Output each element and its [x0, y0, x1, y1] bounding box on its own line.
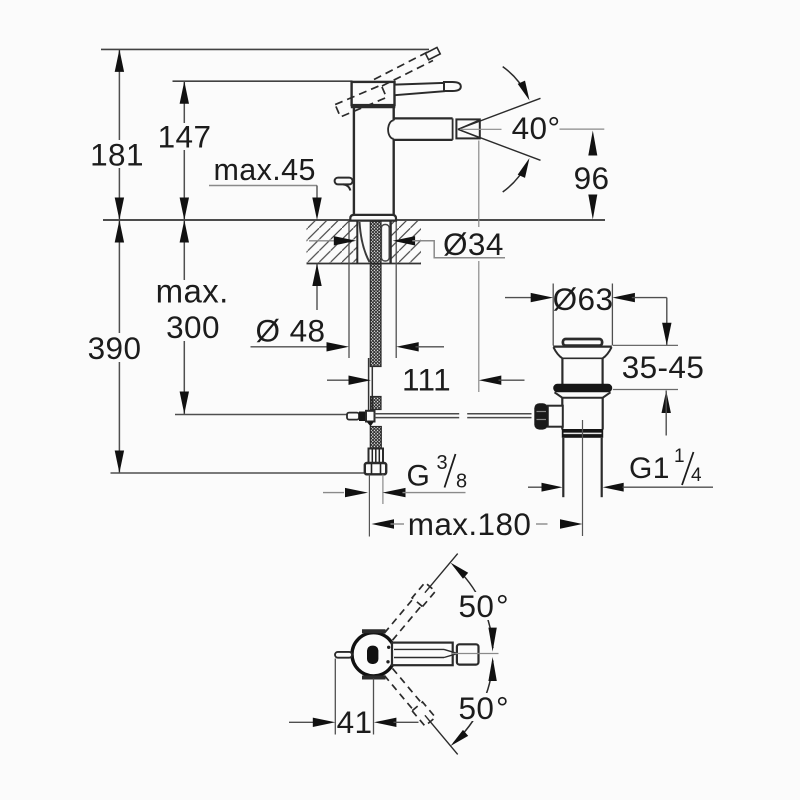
- faucet pop-up rod knob: [335, 178, 353, 185]
- svg-text:Ø63: Ø63: [553, 281, 614, 317]
- valve body right edge: [602, 398, 604, 430]
- dimension 41 right extension line: [373, 679, 375, 735]
- topview dashed handle upper grip: [412, 583, 435, 607]
- wire swivel fan upper line: [458, 98, 541, 129]
- wire 35-45 bottom reference: [613, 389, 678, 391]
- dimension G38 right leader: [403, 492, 466, 494]
- deck section hatching right: [392, 221, 422, 263]
- valve o-ring: [553, 384, 612, 393]
- label 50deg lower background: [456, 693, 502, 721]
- dimension Ø63 right leader: [632, 297, 667, 299]
- pop-up linkage tee box: [366, 411, 375, 422]
- wire 147 reference line (body top datum): [173, 80, 353, 82]
- dimension G38 right extension line: [382, 475, 384, 505]
- faucet handle dashed tilted outline: [335, 85, 386, 117]
- dimension 111 right arrow: [479, 376, 502, 385]
- topview dot 2: [386, 660, 389, 663]
- topview spout inner line 1: [394, 648, 444, 650]
- wire swivel fan center line: [460, 128, 502, 130]
- dimension 41 right leader: [394, 721, 419, 723]
- pop-up rod segment 1 bottom: [375, 417, 460, 419]
- label G114 slash: [682, 452, 694, 485]
- dimension Ø34 leader polyline: [412, 241, 505, 258]
- svg-text:147: 147: [158, 119, 212, 155]
- dimension 40deg upper arc: [503, 67, 528, 96]
- faucet spout top edge: [395, 117, 453, 119]
- svg-text:390: 390: [88, 330, 142, 366]
- topview spout taper 1: [444, 649, 457, 653]
- dimension max180 right arrow: [560, 519, 583, 528]
- label 181 background: [92, 140, 144, 168]
- dimension Ø63 right extension line: [611, 284, 613, 346]
- label G38 slash: [445, 454, 456, 488]
- topview spout tube: [392, 643, 453, 666]
- dimension Ø48 right extension line: [395, 221, 397, 358]
- valve body left edge: [561, 398, 563, 430]
- svg-text:max.180: max.180: [408, 506, 532, 542]
- topview dashed handle upper line 1: [393, 605, 423, 640]
- svg-text:G1: G1: [629, 452, 670, 485]
- dimension 111 extension line (aerator) lower: [478, 261, 480, 392]
- dimension G114 left leader: [528, 486, 543, 488]
- valve knurled knob: [534, 403, 548, 429]
- wire swivel fan lower line: [458, 129, 541, 160]
- hose hex nut: [365, 463, 386, 474]
- dimension 41 left extension line: [334, 659, 336, 735]
- dimension max180 right leader: [536, 523, 548, 525]
- dimension 181 bottom arrow: [115, 198, 124, 221]
- faucet aerator cross line 2: [458, 129, 480, 138]
- dimension 40deg lower arc arrow: [518, 158, 530, 178]
- faucet cap thick bottom edge: [351, 105, 396, 109]
- valve tailpipe right edge: [601, 438, 603, 497]
- label 390 background: [89, 333, 145, 362]
- topview dashed handle lower line 2: [393, 668, 423, 703]
- label 147 background: [157, 123, 212, 150]
- hose ribbed connector rib 2: [375, 449, 377, 463]
- valve collar slit: [564, 432, 602, 434]
- svg-text:3: 3: [437, 452, 449, 474]
- valve centerline: [582, 420, 584, 536]
- pop-up rod segment 1 top: [375, 413, 460, 415]
- faucet lever rod: [395, 83, 445, 95]
- dimension Ø48 left extension line: [348, 221, 350, 358]
- faucet hose braid mid: [371, 397, 381, 410]
- pop-up linkage black block: [359, 412, 366, 422]
- node deck hole left edge: [356, 221, 358, 264]
- valve knob knurl slit 1: [537, 411, 547, 413]
- dimension Ø34 left arrow: [334, 236, 357, 245]
- faucet escutcheon flange: [350, 215, 396, 221]
- valve neck left edge: [561, 358, 563, 384]
- pop-up linkage lower tip: [367, 422, 375, 427]
- svg-text:G: G: [407, 460, 431, 493]
- dimension 50deg lower arc start arrow: [451, 730, 469, 746]
- valve tailpipe left edge: [562, 438, 564, 497]
- dimension Ø48 left arrow: [327, 342, 350, 351]
- dimension 41 left arrow: [313, 718, 336, 727]
- wire deck underside line: [307, 263, 422, 265]
- svg-text:max.: max.: [156, 272, 229, 309]
- faucet body right edge lower: [393, 139, 395, 215]
- label max. background: [155, 280, 231, 341]
- hose ribbed connector: [369, 449, 384, 464]
- dimension 40deg lower arc: [503, 163, 528, 192]
- wire pop-up rod reference line: [175, 414, 349, 416]
- faucet spout end edge: [452, 118, 454, 139]
- svg-text:300: 300: [166, 309, 220, 345]
- topview circle top flat: [362, 629, 386, 633]
- dimension 50deg upper arc start arrow: [451, 563, 469, 579]
- valve lip below o-ring: [555, 392, 611, 397]
- svg-text:96: 96: [574, 160, 610, 196]
- dimension G114 left arrow: [542, 483, 563, 492]
- hose ribbed connector rib 1: [371, 449, 373, 463]
- dimension 390 bottom arrow: [115, 451, 124, 474]
- dimension G38 right arrow: [383, 488, 406, 497]
- hose hex nut facet 1: [371, 464, 373, 474]
- svg-text:8: 8: [456, 471, 468, 493]
- dimension Ø48 right arrow: [396, 342, 419, 351]
- dimension G114 right arrow: [603, 483, 624, 492]
- dimension 50deg lower reference line: [425, 715, 458, 754]
- topview dashed handle upper line 2: [384, 598, 414, 633]
- node deck hole right edge: [389, 221, 391, 264]
- faucet body right edge upper: [393, 108, 395, 121]
- svg-text:°: °: [496, 690, 509, 726]
- dimension Ø63 left leader: [505, 297, 533, 299]
- dimension Ø63 left arrow: [531, 293, 554, 302]
- dimension 41 left leader: [289, 721, 316, 723]
- dimension G38 left leader: [323, 492, 344, 494]
- dimension 35-45 lower line: [665, 391, 667, 436]
- dimension Ø34 left leader: [309, 240, 335, 242]
- dimension 111 left leader: [327, 379, 352, 381]
- faucet rod guide tube curve: [360, 222, 370, 262]
- dimension max.300 bottom arrow: [180, 392, 189, 415]
- pop-up rod segment 2 bottom: [467, 417, 531, 419]
- dimension 111 right leader: [499, 379, 525, 381]
- dimension max.45 lower line: [316, 264, 318, 311]
- topview dot 1: [387, 646, 390, 649]
- topview dashed handle lower grip: [412, 702, 435, 726]
- valve flange top edge: [553, 346, 612, 348]
- faucet lever dashed raised line 2: [382, 61, 433, 87]
- dimension 50deg lower arc end arrow: [488, 657, 496, 681]
- pop-up linkage end cylinder: [347, 413, 359, 420]
- faucet shank slot: [381, 225, 389, 262]
- svg-text:°: °: [548, 110, 561, 146]
- faucet lever grip: [444, 82, 461, 91]
- valve knob knurl slit 2: [537, 419, 547, 421]
- topview left rod: [335, 652, 352, 658]
- topview dashed handle lower line 1: [384, 675, 414, 710]
- valve collar band: [562, 429, 603, 438]
- faucet aerator cross line 1: [458, 120, 480, 130]
- svg-text:Ø 48: Ø 48: [256, 313, 326, 349]
- dimension 147 top arrow: [180, 81, 189, 104]
- topview spout inner line 2: [394, 657, 444, 659]
- dimension 96 up arrow: [588, 131, 597, 156]
- dimension Ø34 right arrow: [393, 236, 416, 245]
- dimension max.45 drop line: [316, 186, 318, 203]
- dimension 35-45 up arrow: [662, 391, 671, 414]
- topview slot: [367, 646, 378, 664]
- svg-text:35-45: 35-45: [622, 349, 705, 385]
- topview spout taper 2: [444, 654, 457, 658]
- dimension 50deg upper reference line: [425, 554, 458, 593]
- valve flange right curve: [603, 347, 612, 358]
- dimension 50deg upper arc: [454, 566, 493, 649]
- svg-text:°: °: [496, 588, 509, 624]
- wire top reference line (lever top, 181 datum): [101, 48, 429, 50]
- wire 390 bottom reference line (hose end): [111, 472, 366, 474]
- topview body circle: [352, 633, 395, 676]
- dimension 111 left arrow: [349, 376, 372, 385]
- faucet lever dashed raised line 1: [374, 52, 428, 80]
- faucet hose braid lower: [370, 427, 381, 449]
- topview circle bottom flat: [362, 676, 386, 680]
- dimension max.45 up arrow: [312, 264, 321, 287]
- faucet handle base cap: [352, 82, 395, 105]
- topview center line: [452, 653, 499, 655]
- faucet body left edge: [353, 108, 355, 216]
- dimension 147 bottom arrow: [180, 198, 189, 221]
- dimension Ø63 right arrow: [612, 293, 635, 302]
- faucet spout bottom edge: [395, 139, 453, 141]
- svg-text:181: 181: [90, 137, 144, 173]
- dimension max180 left leader: [391, 523, 405, 525]
- valve dome cap: [563, 339, 602, 346]
- pop-up rod segment 2 top: [467, 413, 531, 415]
- dimension 390 top arrow: [115, 220, 124, 243]
- dimension 35-45 down arrow: [662, 323, 671, 346]
- valve side port: [548, 406, 563, 427]
- svg-text:max.45: max.45: [213, 153, 315, 187]
- dimension max180 left arrow: [372, 519, 395, 528]
- faucet aerator box: [456, 119, 479, 138]
- hose ribbed connector rib 3: [378, 449, 380, 463]
- dimension G114 right leader: [623, 486, 714, 488]
- dimension 41 right arrow: [374, 718, 397, 727]
- dimension 147 vertical line: [183, 81, 185, 220]
- valve neck right edge: [601, 358, 603, 384]
- dimension max.300 top arrow: [180, 220, 189, 243]
- svg-text:40: 40: [512, 110, 548, 146]
- wire mounting deck surface line: [103, 219, 605, 221]
- faucet lever dashed raised tip: [425, 47, 440, 59]
- dimension max.300 vertical line: [183, 220, 185, 414]
- label 50deg upper background: [456, 592, 502, 620]
- dimension 50deg lower arc: [454, 661, 493, 744]
- topview aerator: [457, 644, 479, 664]
- deck section hatching left: [307, 221, 357, 263]
- dimension G38 long extension line: [368, 475, 370, 537]
- dimension 35-45 upper line: [666, 298, 668, 346]
- wire 35-45 top reference: [613, 344, 678, 346]
- dimension Ø63 left extension line: [552, 284, 554, 346]
- wire 40deg leader line: [560, 128, 605, 130]
- faucet hose thin tube left: [368, 358, 370, 412]
- dimension G38 left arrow: [345, 488, 368, 497]
- dimension 96 down arrow: [588, 195, 597, 220]
- valve flange left curve: [553, 347, 562, 358]
- svg-text:50: 50: [459, 690, 495, 726]
- dimension 181 top arrow: [115, 49, 124, 72]
- faucet hose thin tube right: [371, 367, 373, 412]
- dimension Ø48 right leader: [416, 346, 445, 348]
- dimension 111 extension line (aerator) upper: [478, 141, 480, 228]
- dimension 390 vertical line: [118, 220, 120, 473]
- dimension 40deg upper arc arrow: [518, 81, 530, 101]
- dimension max.45 underline: [209, 185, 317, 187]
- dimension 181 vertical line: [118, 49, 120, 220]
- dimension max.45 down arrow: [312, 198, 321, 221]
- svg-text:Ø34: Ø34: [443, 226, 504, 262]
- svg-text:41: 41: [337, 704, 373, 740]
- hose hex nut facet 2: [380, 464, 382, 474]
- faucet shank braided hose upper: [370, 222, 381, 367]
- svg-text:111: 111: [402, 362, 451, 398]
- dimension 50deg upper arc end arrow: [488, 628, 496, 652]
- valve neck joint line: [562, 357, 602, 359]
- dimension Ø48 left leader: [251, 346, 331, 348]
- faucet spout joint boss: [388, 120, 394, 138]
- faucet pop-up rod curve: [343, 184, 350, 190]
- svg-text:1: 1: [674, 446, 685, 467]
- svg-text:50: 50: [459, 588, 495, 624]
- svg-text:4: 4: [691, 465, 702, 486]
